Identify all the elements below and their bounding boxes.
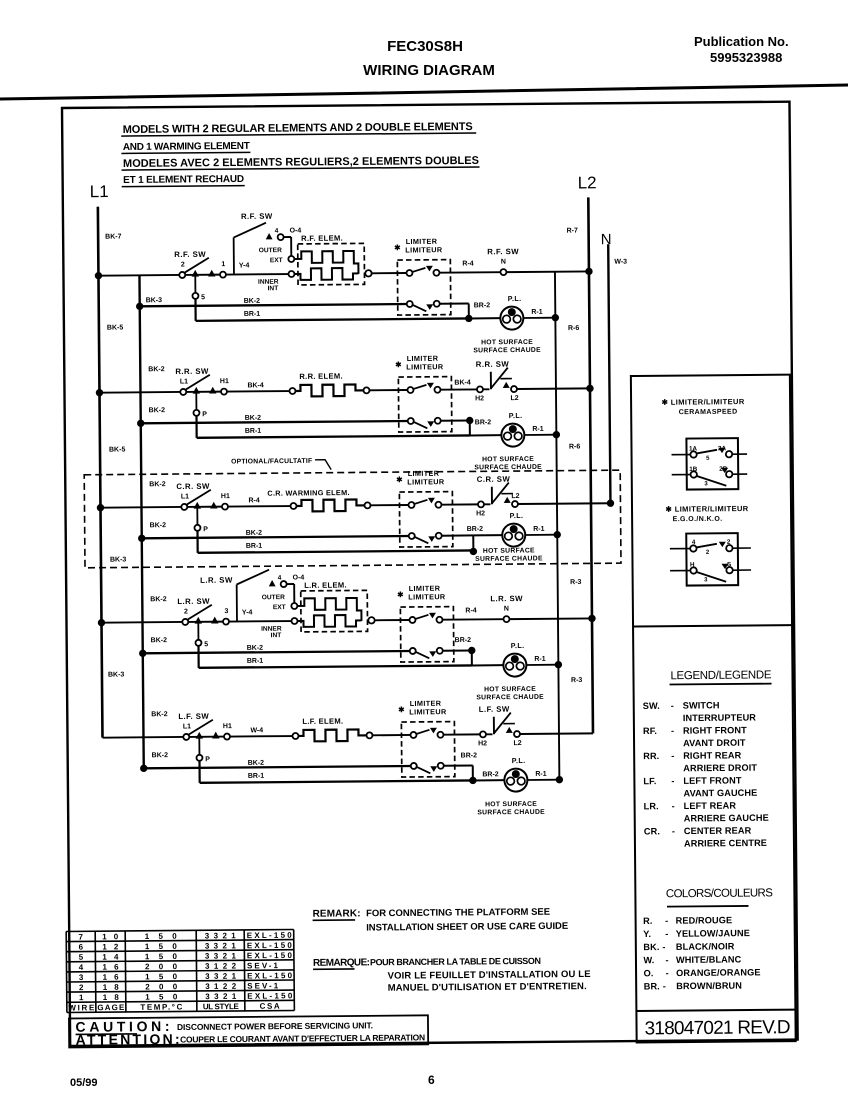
svg-text:BR-2: BR-2 — [461, 752, 478, 759]
switch C.R. thermal frame — [491, 487, 493, 504]
svg-text:L1: L1 — [181, 493, 189, 500]
svg-text:3: 3 — [224, 608, 228, 615]
svg-text:BK-2: BK-2 — [246, 530, 263, 537]
switch C.R. contact P — [194, 525, 200, 531]
table rule — [66, 950, 293, 952]
contact S — [726, 567, 732, 573]
switch L.F. pole marker 2 — [212, 732, 219, 739]
switch L.F. contact P — [196, 755, 202, 761]
svg-text:FEC30S8H: FEC30S8H — [387, 38, 463, 55]
wire C.R. limiter out BK-2 — [442, 534, 473, 536]
svg-text:6: 6 — [79, 943, 84, 952]
REMARQUE underline — [313, 968, 354, 970]
switch C.R. thermal marker — [504, 497, 511, 503]
svg-text:✱: ✱ — [396, 475, 403, 484]
pilot light C.R. body — [502, 523, 525, 546]
ceramaspeed box — [686, 438, 738, 489]
wire L2 bus — [588, 197, 593, 733]
blade 4-2 — [696, 544, 717, 548]
switch R.F. SW upper blade — [234, 223, 267, 238]
switch L.F. contact H2 — [480, 731, 486, 737]
element R.F. EXT terminal — [288, 256, 294, 262]
svg-text:LEGEND/LEGENDE: LEGEND/LEGENDE — [670, 669, 771, 682]
svg-text:R-1: R-1 — [533, 526, 544, 533]
limiter L.F. upper blade — [416, 730, 429, 734]
wire R.R. BR-2 jog — [469, 420, 471, 436]
svg-text:E.G.O./N.K.O.: E.G.O./N.K.O. — [673, 516, 723, 523]
blade 1B — [697, 476, 727, 486]
svg-text:Y-4: Y-4 — [239, 262, 250, 269]
svg-text:C.R. SW: C.R. SW — [477, 475, 511, 484]
node R.R. BR junction — [466, 417, 473, 424]
wire BK-2 L.R. — [143, 651, 410, 653]
wire R.R. to element — [227, 390, 289, 393]
wire BR-1 L.R. — [199, 665, 472, 667]
pilot light L.F. top pin — [512, 770, 520, 778]
limiter L.F. lower left contact — [411, 763, 417, 769]
title underline 3 — [122, 167, 480, 170]
switch L.F. contact H1 — [224, 734, 230, 740]
svg-text:5: 5 — [204, 641, 208, 648]
node C.R. BR junction — [470, 548, 477, 555]
element L.F. coil — [298, 729, 366, 741]
svg-text:REMARQUE:: REMARQUE: — [313, 957, 370, 968]
switch L.R. pole marker — [195, 617, 202, 624]
svg-text:5995323988: 5995323988 — [710, 50, 782, 65]
wire L.R. to upper pole — [236, 584, 238, 621]
switch L.F. pole marker — [196, 732, 203, 739]
svg-text:SURFACE CHAUDE: SURFACE CHAUDE — [474, 464, 542, 472]
svg-text:YELLOW/JAUNE: YELLOW/JAUNE — [676, 928, 750, 939]
limiter R.F. upper marker — [426, 266, 433, 272]
wire L.F. BR-2 jog — [472, 765, 474, 781]
svg-text:L.R. ELEM.: L.R. ELEM. — [304, 581, 347, 590]
svg-text:REMARK:: REMARK: — [312, 908, 360, 919]
node L1 junction L.R. — [98, 619, 105, 626]
svg-text:1A: 1A — [689, 445, 698, 452]
pilot light C.R. right pin — [515, 532, 523, 540]
svg-text:✱: ✱ — [398, 705, 405, 714]
element L.R. ELEM box — [301, 590, 368, 632]
svg-text:HOT SURFACE: HOT SURFACE — [481, 339, 533, 346]
svg-text:H2: H2 — [478, 740, 487, 747]
svg-text:COLORS/COULEURS: COLORS/COULEURS — [666, 887, 773, 900]
switch L.F. SW blade — [189, 720, 213, 735]
limiter R.R. box — [398, 377, 451, 432]
svg-text:DISCONNECT POWER BEFORE SERVIC: DISCONNECT POWER BEFORE SERVICING UNIT. — [177, 1020, 373, 1032]
svg-text:BK-4: BK-4 — [247, 382, 264, 389]
limiter L.F. lower right contact — [438, 763, 444, 769]
wire N bus — [608, 244, 610, 503]
svg-text:W-4: W-4 — [250, 727, 263, 734]
limiter R.R. upper right contact — [434, 387, 440, 393]
switch L.F. thermal blade — [494, 713, 511, 734]
element R.R. right terminal — [363, 387, 369, 393]
svg-text:2A: 2A — [718, 445, 727, 452]
svg-text:R.R. SW: R.R. SW — [476, 360, 510, 369]
svg-text:ET 1 ELEMENT RECHAUD: ET 1 ELEMENT RECHAUD — [123, 174, 244, 186]
switch C.R. contact H1 — [222, 504, 228, 510]
svg-text:R-1: R-1 — [532, 426, 543, 433]
svg-text:WIRING DIAGRAM: WIRING DIAGRAM — [363, 62, 495, 79]
svg-text:BK-2: BK-2 — [150, 596, 167, 603]
limiter R.R. upper left contact — [407, 387, 413, 393]
svg-text:GAGE: GAGE — [97, 1003, 125, 1012]
stub 1A — [672, 454, 691, 456]
svg-text:4: 4 — [275, 228, 279, 235]
svg-text:2: 2 — [727, 539, 731, 546]
ATTENTION underline — [76, 1045, 152, 1048]
switch L.R. contact 4 — [281, 581, 287, 587]
svg-text:1: 1 — [79, 993, 84, 1002]
svg-text:RED/ROUGE: RED/ROUGE — [676, 915, 733, 925]
blade H — [697, 572, 727, 582]
svg-text:BROWN/BRUN: BROWN/BRUN — [676, 981, 742, 992]
limiter C.R. box — [399, 492, 452, 547]
svg-text:R-6: R-6 — [569, 443, 580, 450]
svg-text:-: - — [671, 776, 674, 786]
svg-text:LIMITEUR: LIMITEUR — [408, 592, 446, 601]
svg-text:BK-5: BK-5 — [109, 446, 126, 453]
stub S — [733, 569, 751, 571]
svg-text:1: 1 — [221, 261, 225, 268]
svg-text:P: P — [205, 756, 210, 763]
limiter R.F. lower blade — [413, 305, 427, 312]
limiter C.R. upper marker — [428, 498, 435, 504]
switch L.R. SW blade — [188, 605, 212, 620]
node BK-2 tap L.F. — [140, 765, 147, 772]
svg-text:EXT: EXT — [270, 257, 283, 264]
node L1 junction R.F. — [95, 272, 102, 279]
wire R.F. to L2 — [506, 270, 588, 273]
svg-text:BK-2: BK-2 — [244, 298, 261, 305]
svg-text:R.R. ELEM.: R.R. ELEM. — [299, 372, 343, 381]
svg-text:H2: H2 — [475, 395, 484, 402]
switch R.F. upper pole marker — [266, 233, 273, 239]
wire R.F. drop to BR-1 — [194, 299, 196, 321]
svg-text:✱: ✱ — [395, 360, 402, 369]
node C.R. R-1 junction — [554, 531, 561, 538]
wire L.F. limiter to H2 — [443, 733, 479, 735]
svg-text:R-1: R-1 — [531, 309, 542, 316]
switch R.R. contact L2 — [511, 386, 517, 392]
wire BR-1 R.R. — [197, 435, 470, 437]
svg-text:WHITE/BLANC: WHITE/BLANC — [676, 954, 742, 965]
svg-text:R-4: R-4 — [248, 497, 259, 504]
svg-text:1B: 1B — [689, 466, 698, 473]
marker 2 — [719, 542, 726, 547]
node R.R. R-1 junction — [553, 431, 560, 438]
svg-text:R.F. SW: R.F. SW — [241, 212, 273, 221]
wire L.F. through switch — [189, 736, 223, 738]
limiter C.R. lower blade — [415, 537, 429, 544]
pilot light R.F. right pin — [513, 315, 521, 323]
panel divider 2 — [636, 1010, 795, 1011]
switch R.R. SW contact L1 — [180, 389, 186, 395]
wire R.F. element to limiter — [371, 272, 406, 274]
table rule — [67, 990, 294, 992]
wire L.R. to lower contact — [197, 623, 199, 640]
limiter R.F. box — [397, 260, 450, 315]
svg-text:L1: L1 — [183, 723, 191, 730]
limiter L.R. upper left contact — [409, 617, 415, 623]
wire C.R. drop to BR-1 — [196, 531, 198, 553]
svg-text:2: 2 — [184, 608, 188, 615]
wire R-6/R-3 pilot return vertical — [555, 272, 559, 780]
svg-text:TEMP.°C: TEMP.°C — [140, 1002, 182, 1011]
svg-text:-: - — [662, 942, 665, 952]
switch R.F. pole marker 2 — [208, 270, 215, 277]
svg-text:ARRIERE CENTRE: ARRIERE CENTRE — [684, 838, 767, 849]
element L.F. right terminal — [366, 732, 372, 738]
svg-text:R.F. SW: R.F. SW — [487, 247, 519, 256]
wire L.F. R-1 to return — [527, 779, 559, 781]
wire L.R. BR-2 jog — [471, 650, 473, 666]
wire L.R. outer drop — [293, 584, 295, 603]
wire L.F. stub — [486, 733, 492, 735]
svg-text:BK-5: BK-5 — [107, 324, 124, 331]
wire R.F. limiter out BK-2 — [440, 302, 469, 304]
switch R.F. contact 1 — [220, 272, 226, 278]
element R.F. INT terminal — [288, 271, 294, 277]
table rule — [67, 1000, 294, 1002]
wire C.R. stub — [484, 503, 490, 505]
limiter L.R. upper blade — [415, 615, 428, 619]
svg-text:H1: H1 — [220, 378, 229, 385]
svg-text:CENTER REAR: CENTER REAR — [684, 826, 752, 837]
wire R.R. to pilot light — [470, 434, 501, 436]
svg-text:LR.: LR. — [644, 801, 659, 811]
wire C.R. limiter to H2 — [441, 503, 477, 505]
limiter C.R. lower left contact — [409, 533, 415, 539]
svg-text:BK-3: BK-3 — [110, 556, 127, 563]
wire C.R. main from L1 — [100, 506, 180, 509]
switch L.F. thermal marker — [506, 727, 513, 733]
wire BK-2 C.R. — [142, 536, 409, 538]
table rule — [66, 960, 293, 962]
svg-text:H2: H2 — [476, 510, 485, 517]
svg-text:L.F. SW: L.F. SW — [479, 705, 510, 714]
svg-text:R-1: R-1 — [534, 656, 545, 663]
stub 2A — [732, 453, 747, 455]
wire BR-1 C.R. — [198, 550, 474, 552]
wire BR-1 R.F. — [196, 318, 469, 320]
pilot light L.R. body — [503, 653, 526, 676]
svg-text:Y-4: Y-4 — [242, 609, 253, 616]
limiter R.R. lower blade — [414, 422, 428, 429]
contact 4 — [690, 545, 696, 551]
element R.F. output terminal — [365, 270, 371, 276]
svg-text:LF.: LF. — [643, 776, 656, 786]
svg-text:✱ LIMITER/LIMITEUR: ✱ LIMITER/LIMITEUR — [662, 397, 745, 407]
svg-text:MANUEL D'UTILISATION ET D'ENTR: MANUEL D'UTILISATION ET D'ENTRETIEN. — [388, 981, 587, 994]
limiter R.R. upper marker — [427, 383, 434, 389]
table rule v — [124, 931, 127, 1012]
svg-text:HOT SURFACE: HOT SURFACE — [483, 547, 535, 554]
wire R.F. limiter to N contact — [439, 271, 500, 274]
limiter L.R. lower marker — [429, 651, 436, 657]
wire R.R. to L2 — [517, 387, 590, 390]
switch R.F. SW blade — [185, 258, 209, 273]
wire R.R. element to limiter — [369, 389, 407, 391]
wire R.F. outer drop — [290, 237, 292, 256]
svg-text:L1: L1 — [90, 182, 109, 201]
limiter L.F. lower blade — [417, 767, 431, 774]
svg-text:BR-1: BR-1 — [248, 773, 265, 780]
contact 2B — [726, 471, 732, 477]
svg-text:L.F. ELEM.: L.F. ELEM. — [302, 717, 343, 726]
limiter C.R. upper right contact — [435, 502, 441, 508]
limiter L.R. lower blade — [416, 652, 430, 659]
wire L.F. drop to BR-1 — [198, 761, 200, 783]
pilot light L.R. top pin — [511, 655, 519, 663]
element R.R. coil — [295, 384, 363, 396]
right panel frame — [631, 375, 796, 1043]
svg-text:SURFACE CHAUDE: SURFACE CHAUDE — [477, 809, 545, 817]
limiter R.R. lower marker — [427, 421, 434, 427]
svg-text:-: - — [671, 701, 674, 711]
element R.F. ELEM box — [298, 243, 365, 285]
svg-text:O-4: O-4 — [293, 574, 305, 581]
svg-text:R-3: R-3 — [570, 579, 581, 586]
contact H — [690, 567, 696, 573]
limiter C.R. upper blade — [414, 500, 427, 504]
element L.F. left terminal — [292, 733, 298, 739]
svg-text:BR-1: BR-1 — [246, 543, 263, 550]
switch C.R. contact L2 — [512, 501, 518, 507]
node L2 junction R.F. — [585, 268, 592, 275]
switch C.R. contact H2 — [478, 501, 484, 507]
switch R.F. SW contact 2 — [179, 272, 185, 278]
pilot light R.F. left pin — [503, 315, 511, 323]
wire R.R. R-1 to return — [524, 434, 556, 436]
svg-text:R-6: R-6 — [568, 325, 579, 332]
svg-text:R-4: R-4 — [465, 607, 476, 614]
pilot light R.F. top pin — [508, 308, 516, 316]
limiter R.F. lower marker — [426, 304, 433, 310]
svg-text:RIGHT REAR: RIGHT REAR — [683, 750, 742, 761]
svg-text:SURFACE CHAUDE: SURFACE CHAUDE — [473, 347, 541, 355]
svg-text:R.R. SW: R.R. SW — [175, 367, 209, 376]
svg-text:LEFT REAR: LEFT REAR — [684, 801, 737, 811]
element L.R. outer coil — [297, 598, 361, 622]
pilot light L.F. left pin — [507, 777, 515, 785]
table rule v — [65, 931, 68, 1012]
switch L.R. pole marker 2 — [211, 617, 218, 624]
svg-text:BK-2: BK-2 — [245, 415, 262, 422]
svg-text:AND 1 WARMING ELEMENT: AND 1 WARMING ELEMENT — [123, 141, 250, 153]
wire R.R. through switch — [186, 391, 220, 393]
svg-text:BLACK/NOIR: BLACK/NOIR — [676, 941, 735, 952]
element L.R. EXT terminal — [291, 603, 297, 609]
marker 2B — [721, 468, 728, 473]
svg-text:O.: O. — [644, 968, 654, 978]
switch L.R. upper pole marker — [269, 580, 276, 586]
svg-text:C.R. WARMING ELEM.: C.R. WARMING ELEM. — [267, 488, 349, 498]
svg-text:7: 7 — [78, 933, 83, 942]
node L1 junction R.R. — [96, 389, 103, 396]
svg-text:N: N — [601, 231, 612, 248]
switch L.R. contact 3 — [223, 619, 229, 625]
svg-text:-: - — [663, 981, 666, 991]
svg-text:N: N — [501, 259, 506, 266]
title underline 4 — [122, 186, 245, 187]
element R.F. inner coil — [294, 268, 358, 280]
svg-text:R.: R. — [643, 916, 652, 926]
title underline 2 — [121, 152, 250, 153]
switch L.F. contact L2 — [514, 731, 520, 737]
switch R.R. thermal frame — [490, 372, 492, 389]
element C.R. right terminal — [364, 502, 370, 508]
legend underline — [670, 683, 772, 686]
svg-text:RF.: RF. — [643, 726, 657, 736]
stub 1B — [672, 474, 691, 476]
svg-text:AVANT DROIT: AVANT DROIT — [683, 738, 746, 749]
wire C.R. to lower contact — [196, 508, 198, 525]
svg-text:LIMITEUR: LIMITEUR — [406, 362, 444, 371]
svg-text:-: - — [665, 929, 668, 939]
header divider line — [0, 85, 848, 99]
wire L.R. limiter out BK-2 — [443, 649, 472, 651]
wire L.R. to L2 — [509, 617, 591, 620]
wire L.R. through switch — [188, 621, 222, 623]
svg-text:BK-2: BK-2 — [151, 637, 168, 644]
svg-text:W-3: W-3 — [614, 259, 627, 266]
svg-text:COUPER LE COURANT AVANT D'EFFE: COUPER LE COURANT AVANT D'EFFECTUER LA R… — [180, 1032, 425, 1044]
svg-text:SEV-1: SEV-1 — [247, 961, 279, 970]
blade 1A-2A — [697, 450, 718, 454]
limiter L.R. lower left contact — [410, 648, 416, 654]
svg-text:UL STYLE: UL STYLE — [203, 1002, 240, 1011]
svg-text:RIGHT FRONT: RIGHT FRONT — [683, 725, 747, 736]
svg-text:BK-3: BK-3 — [146, 297, 163, 304]
svg-text:P.L.: P.L. — [512, 756, 526, 765]
contact 1A — [690, 451, 696, 457]
svg-text:R.F. ELEM.: R.F. ELEM. — [301, 234, 343, 243]
limiter R.F. lower left contact — [407, 301, 413, 307]
svg-text:BK-2: BK-2 — [152, 752, 169, 759]
wire R.R. main from L1 — [99, 391, 179, 394]
svg-text:P.L.: P.L. — [509, 411, 523, 420]
svg-text:BK.: BK. — [643, 942, 659, 952]
pilot light L.F. right pin — [517, 777, 525, 785]
pilot light R.R. left pin — [504, 432, 512, 440]
switch L.F. thermal tail — [503, 723, 514, 725]
svg-text:SURFACE CHAUDE: SURFACE CHAUDE — [475, 555, 543, 563]
svg-text:BK-7: BK-7 — [105, 233, 122, 240]
svg-text:✱ LIMITER/LIMITEUR: ✱ LIMITER/LIMITEUR — [665, 504, 748, 514]
svg-text:4: 4 — [692, 539, 696, 546]
stub H — [670, 570, 690, 572]
svg-text:BR-2: BR-2 — [474, 302, 491, 309]
svg-text:R.F. SW: R.F. SW — [174, 250, 206, 259]
svg-text:L.R. SW: L.R. SW — [490, 594, 523, 603]
svg-text:OPTIONAL/FACULTATIF: OPTIONAL/FACULTATIF — [231, 458, 312, 466]
OPTIONAL arrow — [315, 460, 331, 470]
switch R.R. SW blade — [186, 375, 210, 390]
node BK-2 tap L.R. — [139, 650, 146, 657]
switch R.R. pole marker — [193, 387, 200, 394]
svg-text:ATTENTION:: ATTENTION: — [76, 1031, 180, 1048]
switch R.R. thermal marker — [503, 382, 510, 388]
table rule — [66, 940, 293, 942]
switch C.R. SW blade — [187, 490, 211, 505]
limiter L.F. upper right contact — [437, 732, 443, 738]
stub 2 — [732, 547, 750, 549]
node L2 junction R.R. — [586, 385, 593, 392]
wire L.R. to pilot light — [472, 664, 503, 666]
svg-text:R-7: R-7 — [567, 228, 578, 235]
